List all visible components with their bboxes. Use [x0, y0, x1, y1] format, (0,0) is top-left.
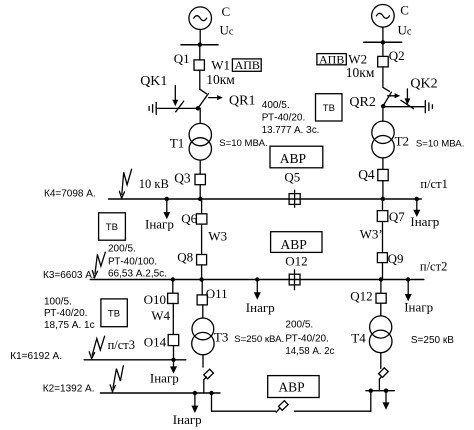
load arrow (bus2 right): [405, 280, 412, 302]
svg-text:РТ-40/20.: РТ-40/20.: [285, 334, 328, 345]
node: QR2/QK2 junction: [381, 104, 385, 108]
wire Q3 to bus 10kV: [199, 185, 201, 199]
load arrow (bus3): [170, 360, 177, 374]
fault bolt K1: [89, 336, 104, 358]
svg-text:S=10 МВА.: S=10 МВА.: [219, 138, 267, 149]
wire Q7 to Q9 (line W3'): [382, 222, 384, 253]
svg-text:10км: 10км: [346, 65, 375, 80]
wire Q6 to Q8 (line W3): [201, 224, 203, 254]
svg-text:Т2: Т2: [395, 133, 409, 148]
tie fuse-switch (below AVR): [276, 401, 288, 412]
svg-text:Q6: Q6: [181, 211, 197, 226]
svg-text:РТ-40/100.: РТ-40/100.: [108, 257, 157, 268]
node: bus2 right load junction: [406, 277, 410, 281]
svg-text:Q1: Q1: [174, 51, 190, 66]
svg-text:Т3: Т3: [214, 330, 228, 345]
svg-text:Q8: Q8: [177, 250, 193, 265]
wire tie line right segment: [294, 410, 370, 412]
svg-text:О10: О10: [144, 292, 166, 307]
svg-text:13.777 А. Зс.: 13.777 А. Зс.: [262, 125, 320, 136]
svg-text:200/5.: 200/5.: [285, 320, 313, 331]
AVR device box (middle): [271, 232, 322, 253]
svg-text:К1=6192 А.: К1=6192 А.: [10, 351, 62, 362]
svg-text:Інагр: Інагр: [246, 300, 275, 315]
load arrow (T4 minibus): [383, 391, 390, 410]
svg-text:АПВ: АПВ: [235, 58, 260, 72]
node: left busbar junction: [198, 43, 202, 47]
transformer T4: [369, 316, 392, 353]
breaker Q7: [377, 211, 388, 222]
wire bus1 to Q7: [382, 199, 384, 211]
svg-text:К2=1392 А.: К2=1392 А.: [43, 383, 95, 394]
svg-text:10км: 10км: [206, 72, 235, 87]
relay text 100/5 block: [44, 296, 95, 331]
svg-text:S=250 кВ: S=250 кВ: [411, 335, 454, 346]
svg-text:100/5.: 100/5.: [44, 296, 72, 307]
fuse-switch (below T4): [379, 368, 389, 379]
ground (right, earthing switch QK2): [425, 101, 432, 113]
wire bus2 to Q11: [201, 280, 203, 295]
node: bus2 Q11 junction: [199, 277, 203, 281]
svg-text:W3: W3: [208, 229, 227, 244]
svg-text:Інагр: Інагр: [150, 370, 179, 385]
svg-text:400/5.: 400/5.: [262, 100, 290, 111]
wire bus1 to Q6: [201, 199, 203, 214]
svg-text:S=10 МВА.: S=10 МВА.: [416, 139, 464, 150]
load arrow (bus2 mid): [254, 280, 261, 300]
QK1 pointer arrow: [172, 86, 178, 107]
node: bus1 left feeder junction: [165, 197, 169, 201]
ground (left, earthing switch QK1): [149, 102, 156, 114]
node: QR1/QK1 junction: [196, 106, 200, 110]
svg-text:C: C: [222, 4, 231, 19]
disconnector QR1 blade: [198, 94, 208, 109]
wire O14 to bus3: [173, 346, 175, 360]
svg-text:18,75 А. 1с: 18,75 А. 1с: [44, 320, 95, 331]
bus 4 (K2 busbar): [100, 392, 220, 394]
relay text 400/5 block: [262, 100, 320, 136]
AVR device box (bottom): [268, 376, 319, 398]
transformer T1: [189, 123, 211, 160]
wire busbar to Q1: [199, 45, 201, 60]
svg-text:QR1: QR1: [229, 94, 255, 109]
svg-text:Q4: Q4: [358, 167, 375, 182]
node: right busbar junction: [381, 40, 385, 44]
svg-text:ТВ: ТВ: [108, 308, 120, 319]
wire bus4 tie (down): [211, 393, 213, 411]
fault bolt K2: [110, 366, 123, 392]
wire T2 to Q4: [382, 158, 384, 170]
svg-text:Q3: Q3: [174, 171, 191, 186]
earthing switch QK2 blade: [401, 100, 414, 108]
svg-text:Інагр: Інагр: [404, 299, 433, 314]
wire source C to right busbar: [382, 27, 384, 42]
fault bolt K4: [119, 169, 131, 198]
load arrow (bus1 right): [413, 199, 420, 217]
svg-text:C: C: [400, 3, 409, 18]
wire tie line left segment: [212, 410, 276, 412]
breaker Q4: [378, 169, 388, 180]
svg-text:10 кВ: 10 кВ: [139, 177, 169, 191]
wire Q10 to O14 (line W4): [172, 304, 174, 335]
wire junction to T2: [382, 107, 384, 121]
generator source C (right): [372, 5, 395, 28]
wire source C to left busbar: [199, 30, 201, 45]
wire T3 to fuse-switch: [202, 355, 204, 367]
breaker Q1: [194, 60, 204, 70]
svg-text:О12: О12: [285, 253, 307, 268]
wire Q4 to bus: [382, 181, 384, 199]
svg-text:РТ-40/20.: РТ-40/20.: [262, 112, 305, 123]
wire tie to T4 minibus: [370, 391, 372, 412]
svg-text:АПВ: АПВ: [319, 52, 344, 66]
svg-text:Т4: Т4: [351, 330, 366, 345]
svg-text:ТВ: ТВ: [323, 103, 335, 114]
svg-text:ТВ: ТВ: [106, 222, 118, 233]
wire T4 to fuse-switch: [380, 353, 382, 369]
T4 minibus: [366, 390, 395, 392]
svg-text:QK1: QK1: [140, 74, 167, 89]
svg-text:Uc: Uc: [398, 23, 412, 38]
generator source C (left): [189, 7, 212, 30]
svg-text:W1: W1: [211, 58, 230, 73]
node: bus4 load junction: [193, 391, 197, 395]
svg-text:АВР: АВР: [278, 380, 304, 395]
node: bus1 T1 junction: [198, 197, 202, 201]
APV device box (right): [317, 54, 346, 65]
svg-text:Q2: Q2: [389, 48, 405, 63]
QR2 fixed contact tick: [383, 87, 390, 91]
fuse-switch (below T3): [204, 369, 214, 380]
wire Q8 to bus2: [201, 265, 203, 280]
svg-text:Q7: Q7: [389, 209, 405, 224]
node: bus2 Q9 junction: [379, 277, 383, 281]
wire bus2 to Q10: [172, 280, 174, 294]
svg-text:Інагр: Інагр: [173, 412, 202, 427]
svg-text:Q12: Q12: [350, 288, 372, 303]
earthing switch QK1 blade: [176, 101, 184, 112]
node: T4 minibus tie junction: [369, 389, 373, 393]
svg-text:АВР: АВР: [281, 237, 307, 252]
wire fuse-switch to T4 minibus: [378, 379, 380, 391]
wire bus2 to Q12: [380, 280, 382, 294]
svg-text:Q9: Q9: [388, 251, 404, 266]
right supply busbar: [364, 41, 402, 43]
node: bus1 right load junction: [415, 197, 419, 201]
bus 10 kV (K4 busbar): [109, 198, 422, 200]
wire fuse-switch to bus4: [203, 380, 205, 393]
wire Q9 to bus2: [382, 263, 384, 280]
svg-text:п/ст3: п/ст3: [108, 338, 135, 352]
APV device box (left): [232, 59, 261, 71]
wire junction to T1: [199, 108, 201, 123]
svg-text:АВР: АВР: [280, 151, 306, 166]
wire Q12 to T4: [380, 303, 382, 316]
left supply busbar: [181, 44, 218, 46]
node: bus4 tie junction: [209, 391, 213, 395]
QK2 pointer arrow: [405, 89, 411, 105]
sectionalizer Q5 (drawout): [289, 190, 300, 207]
wire Q2 to QR2 contact: [382, 67, 384, 88]
node: bus3 load junction: [171, 358, 175, 362]
TV device box (right top): [316, 94, 343, 121]
load arrow (bus4): [191, 393, 198, 413]
svg-text:РТ-40/20.: РТ-40/20.: [44, 308, 87, 319]
svg-text:Q5: Q5: [284, 169, 300, 184]
svg-text:п/ст2: п/ст2: [420, 259, 447, 273]
AVR device box (upper): [270, 146, 323, 168]
svg-text:О14: О14: [144, 335, 167, 350]
transformer T2: [372, 121, 394, 158]
breaker Q6: [196, 214, 207, 224]
load arrow (bus1 left): [163, 199, 170, 219]
wire busbar to Q2: [382, 42, 384, 56]
svg-text:К4=7098 А.: К4=7098 А.: [44, 188, 96, 199]
node: bus2 Q10 junction: [171, 277, 175, 281]
node: bus2 mid load junction: [255, 277, 259, 281]
svg-text:W3’: W3’: [360, 227, 383, 242]
transformer T3: [192, 318, 214, 355]
svg-text:К3=6603 А.: К3=6603 А.: [43, 270, 95, 281]
bus 3 (p/st3 busbar): [84, 359, 186, 361]
sectionalizer O12 (drawout): [289, 270, 300, 290]
breaker Q3: [195, 174, 205, 185]
breaker O14: [168, 335, 179, 346]
breaker O11: [197, 295, 207, 305]
node: T4 minibus load junction: [384, 389, 388, 393]
relay text 200/5 block (left): [108, 243, 167, 279]
svg-text:Т1: Т1: [170, 136, 184, 151]
QR1 pointer arrow: [209, 95, 223, 100]
TV device box (left bottom): [101, 299, 127, 327]
breaker Q2: [378, 56, 389, 67]
svg-text:S=250 кВА.: S=250 кВА.: [234, 334, 284, 345]
relay text 200/5 block (right): [285, 320, 334, 357]
breaker O10: [168, 293, 179, 303]
fault bolt K3: [92, 252, 105, 277]
svg-text:QK2: QK2: [410, 77, 437, 92]
disconnector QR2 blade: [383, 92, 391, 105]
svg-text:14,58 А. 2с: 14,58 А. 2с: [285, 346, 334, 357]
QR1 fixed contact tick: [200, 89, 207, 94]
svg-text:п/ст1: п/ст1: [420, 177, 447, 191]
wire QK1 branch (horizontal): [156, 107, 198, 109]
svg-text:W4: W4: [151, 308, 170, 323]
svg-text:Інагр: Інагр: [145, 217, 174, 232]
wire T1 to Q3: [199, 160, 201, 174]
svg-text:Uc: Uc: [220, 23, 234, 38]
svg-text:Інагр: Інагр: [410, 214, 439, 229]
breaker Q12: [376, 293, 386, 303]
node: bus1 T2 junction: [381, 197, 385, 201]
bus 2 (K3 busbar): [90, 279, 424, 281]
QR2 pointer arrow: [388, 93, 401, 98]
TV device box (left middle): [99, 213, 126, 240]
wire Q11 to T3: [202, 305, 204, 318]
wire QK2 branch (horizontal): [383, 106, 425, 108]
svg-text:200/5.: 200/5.: [108, 243, 136, 254]
breaker Q9: [377, 253, 387, 263]
svg-text:66,53 А.2,5с.: 66,53 А.2,5с.: [108, 269, 167, 280]
breaker Q8: [197, 255, 207, 265]
svg-text:QR2: QR2: [349, 95, 375, 110]
wire Q1 to QR1 contact: [199, 70, 201, 89]
svg-text:О11: О11: [206, 286, 228, 301]
